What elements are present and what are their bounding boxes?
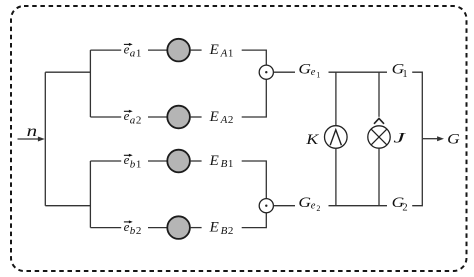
- wire with corner down to product node 2: [242, 161, 267, 199]
- wire: [190, 116, 202, 118]
- svg-text:n: n: [27, 123, 37, 140]
- wire with corner up to product node 1: [242, 79, 267, 117]
- wire with corner down (right bracket top): [412, 72, 422, 139]
- svg-text:G: G: [298, 62, 311, 78]
- wire: [273, 205, 295, 207]
- label e_a2: [124, 108, 142, 126]
- input arrow n: [18, 137, 45, 142]
- multiplier circle B1: [167, 150, 190, 173]
- svg-text:b1: b1: [130, 159, 142, 171]
- svg-text:A2: A2: [220, 114, 234, 126]
- multiplier circle B2: [167, 216, 190, 239]
- svg-text:1: 1: [316, 71, 320, 80]
- svg-text:2: 2: [402, 202, 407, 213]
- wire: [329, 71, 388, 73]
- wire: [90, 116, 121, 118]
- wire: [273, 71, 295, 73]
- wire: [148, 227, 167, 229]
- svg-text:e: e: [124, 108, 130, 123]
- svg-text:a2: a2: [130, 115, 142, 127]
- product node 2 (odot): [259, 199, 273, 213]
- instrument K (circle with wedge): [325, 126, 348, 149]
- wire with corner up (right bracket bottom): [412, 139, 422, 206]
- label e_a1: [124, 41, 142, 59]
- svg-text:2: 2: [316, 204, 320, 213]
- svg-text:K: K: [305, 132, 319, 148]
- svg-text:b2: b2: [130, 225, 142, 237]
- wire: A-branch vertical: [89, 50, 91, 117]
- svg-text:E: E: [209, 109, 219, 125]
- wire: instrument K to G2 row: [335, 148, 337, 205]
- wire: input bus vertical: [44, 72, 46, 206]
- svg-text:e: e: [124, 41, 130, 56]
- product node 1 (odot): [259, 65, 273, 79]
- wire: down to instrument K: [335, 72, 337, 126]
- label E_B1: [209, 153, 234, 170]
- wire: [190, 160, 202, 162]
- label G_e1: [298, 62, 320, 80]
- label G_2: [392, 195, 408, 213]
- wire: bus to B-branch: [45, 205, 90, 207]
- svg-text:e: e: [311, 67, 316, 78]
- wire: [329, 205, 388, 207]
- svg-text:E: E: [209, 42, 219, 58]
- label G_1: [392, 62, 408, 80]
- svg-text:E: E: [209, 153, 219, 169]
- wire with corner down to product node 1: [242, 50, 267, 65]
- wire with corner up to product node 2: [242, 213, 267, 228]
- svg-text:a1: a1: [130, 48, 142, 60]
- svg-text:e: e: [124, 219, 130, 234]
- label E_B2: [209, 220, 234, 237]
- svg-text:E: E: [209, 220, 219, 236]
- wire: B-branch vertical: [89, 161, 91, 228]
- label E_A2: [209, 109, 234, 126]
- output arrow: [422, 136, 444, 141]
- svg-text:B2: B2: [221, 225, 234, 237]
- svg-text:A1: A1: [220, 47, 234, 59]
- wire: [148, 160, 167, 162]
- hat over instrument J: [374, 118, 384, 123]
- wire: [190, 227, 202, 229]
- instrument J (circle with cross): [368, 126, 390, 148]
- svg-text:1: 1: [402, 69, 407, 80]
- wire: [90, 49, 121, 51]
- svg-text:G: G: [447, 132, 460, 148]
- label G_e2: [298, 195, 320, 213]
- multiplier circle A1: [167, 39, 190, 62]
- label E_A1: [209, 42, 234, 59]
- wire: down to instrument J: [378, 72, 380, 117]
- wire: [90, 227, 121, 229]
- wire: [148, 116, 167, 118]
- wire: instrument J to G2 row: [378, 148, 380, 206]
- wire: bus to A-branch: [45, 71, 90, 73]
- multiplier circle A2: [167, 106, 190, 129]
- svg-text:e: e: [311, 201, 316, 212]
- wire: [148, 49, 167, 51]
- svg-text:B1: B1: [221, 158, 234, 170]
- svg-text:G: G: [298, 195, 311, 211]
- wire: [190, 49, 202, 51]
- svg-text:e: e: [124, 152, 130, 167]
- label e_b2: [124, 219, 142, 237]
- label e_b1: [124, 152, 142, 170]
- wire: [90, 160, 121, 162]
